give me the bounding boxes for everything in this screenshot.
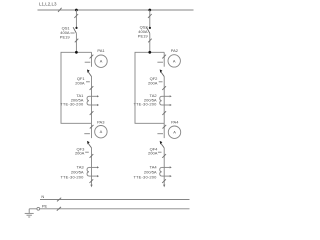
svg-text:200A: 200A	[75, 80, 85, 85]
slash below TA2	[162, 111, 166, 115]
ammeter PA2	[168, 48, 180, 67]
svg-text:PE: PE	[42, 204, 48, 209]
slash below TA1	[90, 111, 94, 115]
svg-text:PE19: PE19	[60, 35, 71, 40]
node junction right incomer	[148, 9, 151, 12]
svg-text:TTE-30-200: TTE-30-200	[133, 175, 157, 180]
slash below TA4	[162, 179, 166, 183]
slash below QF3	[90, 154, 94, 158]
wire left incomer upper	[75, 10, 77, 28]
wire feeder 4 below panel2	[163, 123, 165, 138]
slash below QF4	[162, 154, 166, 158]
svg-text:PA1: PA1	[97, 48, 105, 53]
wire panel2 right edge mid	[163, 77, 165, 124]
wire bus L1,L2,L3	[38, 9, 194, 11]
arrow feeder 4 end	[163, 185, 165, 188]
svg-text:N: N	[41, 194, 44, 199]
transformer TA2	[133, 93, 171, 107]
wire panel1 right edge upper	[91, 52, 93, 66]
bus phase slash	[58, 8, 62, 12]
slash below panel1	[90, 125, 94, 129]
transformer TA4	[133, 165, 171, 180]
slash below panel2	[163, 125, 167, 129]
switch QS1	[60, 26, 78, 40]
ammeter PA1	[95, 48, 107, 67]
svg-text:200A: 200A	[148, 151, 158, 156]
arrow feeder 3 end	[90, 185, 92, 188]
node junction left incomer	[75, 9, 78, 12]
slash below QS1	[75, 39, 79, 43]
node panel 2 feed	[148, 51, 151, 54]
slash bus N	[57, 198, 61, 202]
breaker QF3	[75, 134, 92, 156]
svg-text:A: A	[100, 59, 103, 64]
breaker QF4	[148, 134, 164, 156]
wire QS2 to panel 2	[149, 33, 151, 52]
transformer TA3	[60, 165, 99, 180]
breaker QF1	[75, 62, 91, 85]
slash below QS2	[148, 39, 152, 43]
svg-text:A: A	[100, 129, 103, 134]
slash below TA3	[90, 179, 94, 183]
svg-text:TTE-30-200: TTE-30-200	[60, 175, 84, 180]
transformer TA1	[60, 93, 99, 107]
switch QS2	[138, 24, 151, 38]
slash panel1 top	[90, 55, 94, 59]
slash left incomer	[74, 14, 78, 18]
ground	[25, 209, 34, 217]
ammeter PA3	[95, 120, 107, 138]
wire bus N	[40, 199, 190, 201]
slash panel2 top	[162, 55, 166, 59]
svg-text:PA4: PA4	[171, 120, 179, 125]
svg-text:TTE-30-200: TTE-30-200	[133, 102, 157, 107]
svg-text:A: A	[173, 130, 176, 135]
wire right incomer upper	[149, 10, 151, 28]
node PE terminal	[37, 207, 40, 210]
wire bus PE	[29, 208, 189, 210]
slash below QF2	[162, 86, 166, 90]
slash bus PE	[57, 207, 61, 211]
wire feeder 3 below panel1	[91, 123, 93, 138]
breaker QF2	[148, 62, 164, 85]
svg-text:200A: 200A	[148, 80, 158, 85]
svg-text:PE19: PE19	[138, 34, 149, 39]
wire panel2 right edge upper	[163, 52, 165, 66]
slash below QF1	[90, 86, 94, 90]
node panel 1 feed	[75, 51, 78, 54]
wire QS1 to panel 1	[75, 33, 77, 52]
wire panel1 right edge mid	[91, 77, 93, 124]
wire feeder 3 lower	[91, 148, 93, 185]
svg-text:TTE-30-200: TTE-30-200	[60, 102, 84, 107]
wire feeder 4 lower	[163, 148, 165, 185]
panel box 1	[61, 52, 92, 123]
svg-text:L1,L2,L3: L1,L2,L3	[39, 1, 57, 6]
slash right incomer	[148, 14, 152, 18]
ammeter PA4	[168, 120, 180, 139]
svg-text:PA3: PA3	[97, 120, 105, 125]
panel box 2	[135, 52, 164, 123]
svg-text:A: A	[173, 58, 176, 63]
svg-text:PA2: PA2	[171, 48, 179, 53]
svg-text:200A: 200A	[75, 151, 85, 156]
